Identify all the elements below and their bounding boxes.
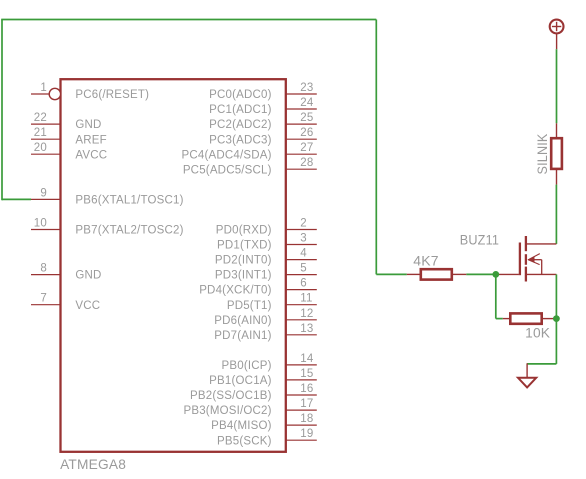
pin 8 GND (left) [31, 263, 102, 282]
svg-text:AVCC: AVCC [75, 149, 107, 161]
ground symbol [518, 363, 536, 387]
svg-text:PD3(INT1): PD3(INT1) [215, 270, 272, 282]
pin 10 PB7(XTAL2/TOSC2) (left) [31, 218, 184, 237]
resistor SILNIK (load) [551, 123, 562, 184]
svg-text:PB7(XTAL2/TOSC2): PB7(XTAL2/TOSC2) [75, 225, 183, 237]
svg-text:4K7: 4K7 [413, 253, 439, 268]
pin 3 PD1(TXD) (right) [217, 233, 317, 252]
pin 9 PB6(XTAL1/TOSC1) (left) [31, 187, 184, 206]
svg-text:PB4(MISO): PB4(MISO) [211, 420, 272, 432]
pin 2 PD0(RXD) (right) [216, 218, 317, 237]
pin 15 PB1(OC1A) (right) [209, 368, 317, 387]
wire SILNIK to drain [555, 185, 557, 244]
wire vcc to SILNIK [556, 49, 558, 123]
svg-text:6: 6 [300, 278, 307, 290]
svg-text:8: 8 [40, 263, 47, 275]
pin 16 PB2(SS/OC1B) (right) [190, 383, 317, 402]
pin 19 PB5(SCK) (right) [217, 428, 317, 447]
svg-text:5: 5 [300, 263, 307, 275]
svg-text:GND: GND [75, 119, 101, 131]
svg-text:19: 19 [300, 428, 313, 440]
wire bottom horizontal to ground [527, 363, 556, 365]
svg-text:PC3(ADC3): PC3(ADC3) [209, 134, 272, 146]
svg-text:20: 20 [34, 142, 47, 154]
svg-text:17: 17 [300, 398, 313, 410]
svg-text:13: 13 [300, 323, 313, 335]
svg-text:ATMEGA8: ATMEGA8 [60, 456, 126, 472]
svg-text:26: 26 [300, 127, 313, 139]
svg-text:PC2(ADC2): PC2(ADC2) [209, 119, 272, 131]
pin 18 PB4(MISO) (right) [211, 413, 317, 432]
wire 10K node down [555, 319, 557, 364]
svg-text:10K: 10K [525, 326, 550, 341]
pin 4 PD2(INT0) (right) [215, 248, 317, 267]
vcc supply symbol [550, 20, 564, 50]
svg-text:25: 25 [300, 112, 313, 124]
pin 25 PC2(ADC2) (right) [209, 112, 317, 131]
svg-text:23: 23 [300, 82, 313, 94]
pin 28 PC5(ADC5/SCL) (right) [183, 157, 317, 176]
svg-text:24: 24 [300, 97, 314, 109]
svg-text:18: 18 [300, 413, 313, 425]
svg-text:12: 12 [300, 308, 313, 320]
svg-text:2: 2 [300, 218, 307, 230]
svg-text:GND: GND [75, 270, 101, 282]
pin 7 VCC (left) [31, 293, 100, 312]
pin 20 AVCC (left) [31, 142, 107, 161]
svg-text:PD6(AIN0): PD6(AIN0) [214, 315, 271, 327]
svg-text:28: 28 [300, 157, 313, 169]
svg-text:PD4(XCK/T0): PD4(XCK/T0) [199, 285, 272, 297]
pin 17 PB3(MOSI/OC2) (right) [183, 398, 316, 417]
wire pin9 to left riser [2, 198, 31, 200]
svg-text:22: 22 [34, 112, 47, 124]
svg-text:VCC: VCC [75, 300, 100, 312]
pin 6 PD4(XCK/T0) (right) [199, 278, 317, 297]
svg-text:PD1(TXD): PD1(TXD) [217, 240, 272, 252]
pin 23 PC0(ADC0) (right) [209, 82, 317, 101]
junction gate node [492, 271, 499, 278]
svg-text:11: 11 [300, 293, 312, 305]
svg-text:4: 4 [300, 248, 307, 260]
transistor BUZ11 (n-mosfet) [496, 236, 557, 282]
svg-text:9: 9 [40, 187, 47, 199]
resistor 10K [503, 313, 557, 323]
svg-text:7: 7 [40, 293, 47, 305]
svg-text:PB0(ICP): PB0(ICP) [222, 360, 272, 372]
svg-text:16: 16 [300, 383, 313, 395]
svg-text:PC5(ADC5/SCL): PC5(ADC5/SCL) [183, 164, 272, 176]
pin 24 PC1(ADC1) (right) [209, 97, 317, 116]
svg-text:14: 14 [300, 353, 314, 365]
pin 12 PD6(AIN0) (right) [214, 308, 317, 327]
svg-text:15: 15 [300, 368, 313, 380]
pin 1 PC6(/RESET) (left) [31, 82, 149, 101]
svg-text:10: 10 [34, 218, 47, 230]
svg-text:PB6(XTAL1/TOSC1): PB6(XTAL1/TOSC1) [75, 195, 183, 207]
wire riser to R 4K7 [376, 273, 407, 275]
IC ATMEGA8 body [61, 79, 286, 452]
svg-text:PD2(INT0): PD2(INT0) [215, 255, 272, 267]
pin 13 PD7(AIN1) (right) [214, 323, 317, 342]
svg-text:PC0(ADC0): PC0(ADC0) [209, 89, 272, 101]
wire gate node down to R 10K [495, 274, 497, 318]
svg-text:BUZ11: BUZ11 [460, 232, 499, 247]
wire source to 10K node [555, 274, 557, 318]
svg-text:PD7(AIN1): PD7(AIN1) [214, 330, 271, 342]
svg-text:PC6(/RESET): PC6(/RESET) [75, 89, 149, 101]
svg-text:PB5(SCK): PB5(SCK) [217, 435, 272, 447]
svg-text:SILNIK: SILNIK [535, 134, 550, 175]
svg-text:PD5(T1): PD5(T1) [227, 300, 272, 312]
svg-text:PD0(RXD): PD0(RXD) [216, 225, 272, 237]
svg-text:PB3(MOSI/OC2): PB3(MOSI/OC2) [183, 405, 271, 417]
wire right riser vertical [375, 20, 377, 275]
svg-text:PB1(OC1A): PB1(OC1A) [209, 375, 272, 387]
svg-text:27: 27 [300, 142, 313, 154]
resistor 4K7 [407, 269, 467, 279]
pin 26 PC3(ADC3) (right) [209, 127, 317, 146]
pin 21 AREF (left) [31, 127, 107, 146]
junction source node [553, 315, 560, 322]
pin 5 PD3(INT1) (right) [215, 263, 317, 282]
pin 27 PC4(ADC4/SDA) (right) [182, 142, 317, 161]
pin 22 GND (left) [31, 112, 102, 131]
pin 14 PB0(ICP) (right) [222, 353, 317, 372]
svg-text:21: 21 [34, 127, 47, 139]
wire R 4K7 to gate node [466, 273, 496, 275]
svg-text:PB2(SS/OC1B): PB2(SS/OC1B) [190, 390, 272, 402]
svg-text:3: 3 [300, 233, 307, 245]
wire top horizontal [1, 19, 376, 21]
wire left riser vertical [1, 20, 3, 201]
wire corner to R 10K left [496, 318, 503, 320]
svg-text:AREF: AREF [75, 134, 106, 146]
svg-text:PC1(ADC1): PC1(ADC1) [209, 104, 272, 116]
pin 11 PD5(T1) (right) [227, 293, 317, 312]
svg-text:1: 1 [40, 82, 47, 94]
svg-text:PC4(ADC4/SDA): PC4(ADC4/SDA) [182, 149, 272, 161]
